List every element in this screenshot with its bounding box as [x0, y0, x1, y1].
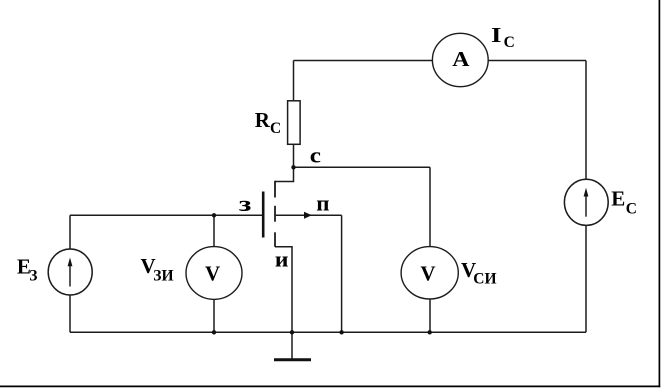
node gate junction dot: [212, 213, 216, 217]
svg-text:ЗИ: ЗИ: [153, 268, 173, 285]
voltmeter V_ZI: [186, 247, 242, 300]
wire drain connection: [275, 167, 294, 181]
frame right border: [658, 0, 660, 387]
wire node c horizontal to V_CI branch: [294, 166, 431, 168]
transistor VT channel dashes: [274, 181, 276, 247]
svg-text:V: V: [420, 261, 435, 285]
transistor VT gate bar: [262, 192, 265, 238]
wire top horizontal from resistor to E_C corner: [294, 60, 587, 62]
junction dot substrate bottom: [339, 330, 343, 334]
svg-text:R: R: [255, 108, 271, 132]
svg-text:п: п: [316, 190, 330, 215]
wire V_CI branch vertical: [429, 167, 431, 332]
ammeter A1: [432, 33, 488, 86]
svg-text:З: З: [29, 267, 37, 284]
transistor substrate arrow: [304, 212, 312, 219]
svg-text:А: А: [452, 47, 470, 71]
wire resistor branch vertical: [293, 61, 295, 168]
junction dot V_CI bottom: [428, 330, 432, 334]
junction dot V_ZI bottom: [212, 330, 216, 334]
source E_Z: [48, 249, 92, 295]
svg-text:С: С: [504, 34, 515, 51]
svg-text:E: E: [611, 187, 625, 211]
wire substrate horizontal: [276, 214, 342, 216]
svg-text:V: V: [205, 262, 220, 286]
wire V_ZI branch vertical: [213, 215, 215, 332]
svg-text:С: С: [270, 120, 281, 137]
svg-text:I: I: [491, 23, 502, 47]
wire E_Z branch vertical: [69, 215, 71, 332]
svg-text:и: и: [275, 246, 289, 271]
wire substrate vertical: [341, 215, 343, 332]
source E_C: [564, 179, 608, 225]
ground: [274, 358, 311, 361]
svg-text:з: з: [239, 191, 252, 216]
node c junction dot: [291, 165, 295, 169]
svg-text:С: С: [626, 200, 637, 217]
svg-text:с: с: [310, 142, 321, 167]
wire source connection: [275, 247, 292, 332]
wire bottom horizontal: [70, 331, 586, 333]
resistor R_C: [288, 101, 301, 145]
wire source to ground: [291, 332, 293, 359]
svg-text:СИ: СИ: [473, 271, 496, 288]
junction dot source bottom: [290, 330, 294, 334]
voltmeter V_CI: [401, 247, 458, 299]
wire right vertical E_C branch: [585, 61, 587, 333]
wire gate horizontal: [70, 214, 262, 216]
frame bottom border: [0, 385, 660, 387]
